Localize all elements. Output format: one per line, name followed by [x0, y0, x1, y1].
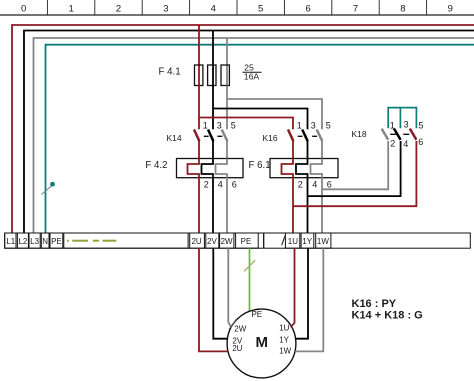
terminal strip X1 — [5, 233, 471, 248]
svg-text:3: 3 — [404, 120, 409, 130]
svg-text:4: 4 — [218, 180, 223, 190]
svg-text:6: 6 — [305, 4, 310, 15]
wire fuse pole3 to K14 pin 5 (gray) — [226, 86, 228, 130]
svg-text:1: 1 — [68, 4, 73, 15]
wire L3 tap to fuse F4.1 pole 3 — [226, 38, 228, 65]
terminal L3 label — [30, 237, 39, 246]
label F4.1 — [159, 66, 181, 77]
label F6.1 — [249, 160, 271, 171]
svg-text:N: N — [42, 237, 48, 246]
svg-text:6: 6 — [418, 137, 423, 147]
svg-text:L1: L1 — [6, 237, 15, 246]
svg-text:2V: 2V — [207, 237, 217, 246]
svg-text:F 4.1: F 4.1 — [159, 66, 181, 77]
svg-text:1Y: 1Y — [279, 335, 289, 344]
svg-text:2U: 2U — [232, 344, 242, 353]
terminal 2U label — [191, 237, 201, 246]
svg-text:1U: 1U — [288, 237, 298, 246]
svg-text:L3: L3 — [30, 237, 39, 246]
PE wire slash mark — [244, 260, 255, 271]
wire F4.2 pole3 to terminal 2W (gray) — [226, 178, 228, 233]
wire K18 pin 2 to 1W column (gray) — [322, 141, 388, 189]
svg-text:2U: 2U — [191, 237, 201, 246]
motor M1 labels — [232, 310, 291, 356]
wire L1 bus (dark red) — [12, 25, 474, 233]
svg-text:4: 4 — [312, 180, 317, 190]
svg-text:7: 7 — [353, 4, 358, 15]
svg-text:PE: PE — [251, 310, 262, 319]
svg-text:4: 4 — [403, 139, 408, 149]
svg-text:2: 2 — [298, 180, 303, 190]
wire F6.1 pole1 to terminal 1U (dark red) — [292, 178, 294, 233]
wire terminal 1W to motor 1W (gray) — [295, 248, 323, 351]
svg-text:3: 3 — [311, 121, 316, 131]
thermal overload F6.1 — [270, 159, 338, 190]
terminal 1Y label — [302, 237, 312, 246]
svg-text:K16: K16 — [263, 133, 278, 143]
wire F4.2 pole1 to terminal 2U (dark red) — [198, 178, 200, 233]
note K14 + K18 : G — [352, 309, 423, 321]
terminal PE (motor) label — [241, 237, 252, 246]
wire terminal 1U to motor 1U (dark red) — [291, 248, 295, 327]
PE bus dash-dot mark (olive) — [67, 240, 116, 242]
thermal overload F4.2 — [177, 159, 244, 190]
svg-text:PE: PE — [51, 237, 62, 246]
value label 25/16A — [243, 62, 262, 81]
terminal 2V label — [207, 237, 217, 246]
svg-text:1: 1 — [297, 121, 302, 131]
svg-text:6: 6 — [327, 180, 332, 190]
wire K18 pin 6 to 1U column (dark red) — [293, 141, 416, 206]
terminal 1U label — [288, 237, 298, 246]
motor 2W connection slash — [229, 319, 237, 330]
svg-text:F 4.2: F 4.2 — [145, 160, 167, 171]
wire F6.1 pole3 to terminal 1W (gray) — [321, 178, 323, 233]
svg-text:K18: K18 — [352, 129, 367, 139]
wire fuse pole1 to K14 pin 1 (dark red) — [198, 86, 200, 130]
terminal L2 label — [18, 237, 27, 246]
wire branch to K16 pin 3 (black) — [213, 109, 308, 130]
wire L3 bus (gray) — [34, 38, 474, 233]
wire L2 bus (black) — [24, 31, 474, 234]
svg-text:5: 5 — [326, 121, 331, 131]
svg-text:2W: 2W — [221, 237, 233, 246]
wire terminal 2U to motor 2U (dark red) — [199, 248, 228, 351]
wire L1 tap to fuse F4.1 pole 1 — [198, 25, 200, 65]
contactor K18 with star bridge — [352, 108, 424, 149]
contactor K14 — [167, 121, 236, 159]
terminal 2W label — [221, 237, 233, 246]
svg-text:M: M — [255, 334, 268, 351]
svg-text:3: 3 — [163, 4, 168, 15]
svg-text:K16 : PY: K16 : PY — [352, 298, 397, 310]
svg-text:2: 2 — [116, 4, 121, 15]
terminal 1W label — [317, 237, 329, 246]
contactor K16 — [263, 121, 331, 159]
svg-text:1: 1 — [203, 121, 208, 131]
wire terminal 1Y to motor 1Y (black) — [296, 248, 308, 339]
svg-text:0: 0 — [21, 4, 26, 15]
svg-text:K14 + K18 : G: K14 + K18 : G — [352, 309, 423, 321]
svg-text:1Y: 1Y — [302, 237, 312, 246]
svg-text:2: 2 — [390, 138, 395, 148]
svg-text:8: 8 — [400, 4, 405, 15]
terminal N label — [42, 237, 48, 246]
wire branch to K16 pin 5 (gray) — [227, 99, 322, 129]
motor M circle — [227, 309, 296, 378]
svg-text:16A: 16A — [244, 72, 260, 82]
terminal L1 label — [6, 237, 15, 246]
svg-text:1U: 1U — [279, 324, 289, 333]
wire K18 pin 4 to 1Y column (black) — [308, 141, 401, 196]
svg-text:6: 6 — [232, 180, 237, 190]
svg-text:9: 9 — [448, 4, 453, 15]
wire F4.2 pole2 to terminal 2V (black) — [212, 178, 214, 233]
svg-text:1W: 1W — [279, 346, 291, 355]
wire fuse pole2 to K14 pin 3 (black) — [212, 86, 214, 130]
svg-text:4: 4 — [211, 4, 216, 15]
fuse F4.1 (three poles) — [195, 65, 230, 86]
wire L2 tap to fuse F4.1 pole 2 — [212, 31, 214, 66]
terminal slash separator before 1U — [282, 236, 286, 246]
svg-text:1W: 1W — [317, 237, 329, 246]
svg-text:L2: L2 — [18, 237, 27, 246]
svg-text:5: 5 — [258, 4, 263, 15]
svg-text:5: 5 — [231, 121, 236, 131]
svg-text:5: 5 — [418, 121, 423, 131]
wire terminal 2V to motor 2V (black) — [213, 248, 227, 339]
svg-text:3: 3 — [217, 121, 222, 131]
terminal PE label — [51, 237, 62, 246]
svg-text:K14: K14 — [167, 133, 182, 143]
wire N bus (teal) — [46, 45, 474, 233]
svg-text:F 6.1: F 6.1 — [249, 160, 271, 171]
wire terminal PE to motor PE (green) — [249, 248, 251, 310]
wire terminal 2W to motor 2W (gray) — [228, 248, 231, 327]
ruler scale 0-9 — [0, 0, 474, 15]
svg-text:PE: PE — [241, 237, 252, 246]
svg-text:2: 2 — [204, 180, 209, 190]
svg-text:2W: 2W — [234, 324, 246, 333]
wire branch to K16 pin 1 (dark red) — [199, 118, 293, 130]
node N tap (teal junction dot with slash) — [42, 182, 55, 195]
label F4.2 — [145, 160, 167, 171]
note K16 : PY — [352, 298, 397, 310]
wire F6.1 pole2 to terminal 1Y (black) — [307, 178, 309, 233]
